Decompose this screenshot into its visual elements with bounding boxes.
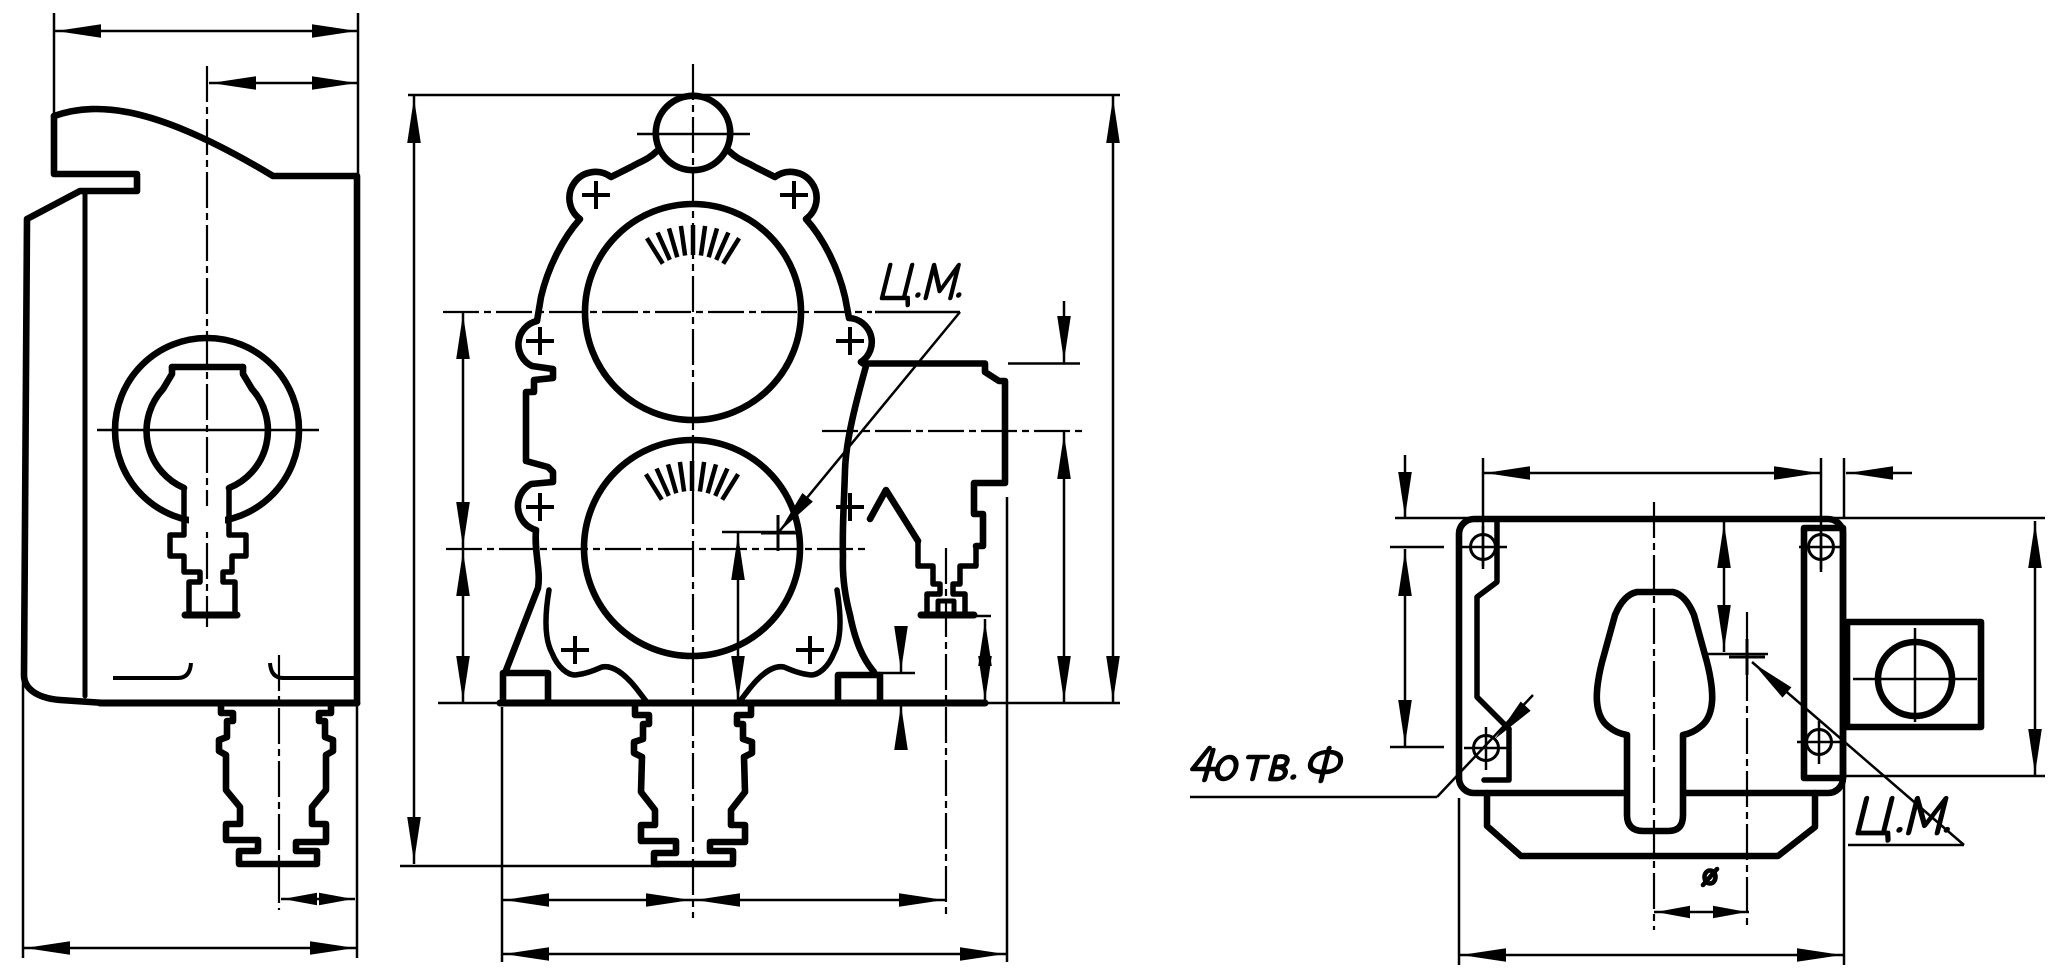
worm axis centerline right [822, 430, 1082, 432]
extension line left foot down [501, 707, 504, 962]
plate rounded rectangle [1459, 519, 1843, 793]
arrowhead top dim right [1774, 466, 1819, 480]
arrowhead bottom left height dim [407, 817, 421, 862]
cm marker cross right view [1729, 639, 1765, 675]
arrowhead right height bottom [2028, 729, 2042, 774]
lower left corner hole [1474, 736, 1499, 761]
CM right leader diagonal [1752, 662, 1964, 845]
arrowhead at flange top [1057, 316, 1071, 361]
label 4 holes underline [1190, 796, 1437, 799]
lower bore hatch fan [646, 461, 738, 500]
dovetail bottom plate middle view [654, 861, 733, 868]
extension line right edge down [356, 706, 359, 958]
right height dimension line [2034, 521, 2037, 776]
inner contour upper left [1477, 522, 1509, 729]
slot left wall [918, 541, 940, 612]
baseline thin extension right [985, 702, 1120, 705]
base ledge fillet left [113, 663, 191, 678]
left hole spacing dimension line [1404, 549, 1407, 747]
arrowhead left of second dim [211, 76, 256, 90]
arrowhead down at baseline right [1057, 656, 1071, 701]
label 4 holes text [1190, 748, 1345, 781]
left edge and hook notch of side view [24, 116, 137, 703]
arrowhead bottom right height [1106, 656, 1120, 701]
right strip pad [1804, 528, 1843, 778]
leader 4 holes arrowhead [1490, 701, 1531, 743]
arrowhead left bottom dim [25, 941, 70, 955]
bottom dovetail right profile [296, 703, 333, 861]
arrowhead left of top width dim [56, 24, 101, 38]
bell centerline [1653, 502, 1655, 930]
slot right wall below bore [223, 488, 246, 611]
side block circle [1878, 642, 1952, 716]
arrowhead bottom plate cm dim [1717, 605, 1731, 650]
extension line plate right bottom [1843, 700, 1846, 965]
arrowhead slot bottom up [978, 621, 992, 666]
arrowhead small bottom right [1713, 906, 1747, 918]
arrowhead down at lower hole line [1398, 700, 1412, 745]
leader 4 holes diagonal [1437, 695, 1533, 797]
CM right leader arrowhead [1749, 658, 1792, 698]
extension line plate left bottom [1458, 798, 1461, 965]
arrowhead bottom chain right [899, 893, 944, 907]
label CM text middle [880, 265, 969, 305]
upper bore centerline [443, 311, 872, 313]
arrowhead up at axis [1057, 434, 1071, 479]
arrowhead top right height [1106, 98, 1120, 143]
slot centerline vertical [945, 548, 947, 915]
lower bore centerline [446, 548, 865, 550]
inner wavy contour bottom right [740, 590, 840, 701]
arrowhead up at hole line [1398, 551, 1412, 596]
arrowhead down to plate top [1398, 472, 1412, 517]
arrowhead bottom overall left [504, 947, 549, 961]
arrowhead middle up bore spacing [456, 551, 470, 596]
strip bottom extension line right [1846, 775, 2045, 778]
bottom tray trapezoid [1487, 793, 1815, 856]
arrowhead left small dim [283, 893, 317, 905]
bottom overall dimension line [502, 953, 1007, 956]
overall height dimension line left [413, 96, 416, 864]
bore spacing dimension line [462, 312, 465, 703]
vertical centerline of side view [206, 66, 208, 627]
housing outline right half upper [729, 151, 872, 362]
screw cross right-upper [836, 327, 864, 355]
lower right corner hole [1807, 730, 1832, 755]
arrowhead middle down bore spacing [456, 502, 470, 547]
inner bore right profile with keystone chamfer [229, 367, 268, 488]
inner bore left profile with keystone chamfer [147, 367, 184, 488]
flange top extension line [1008, 362, 1080, 365]
lower left hole ticks [1464, 727, 1510, 770]
housing outline left half [505, 151, 657, 673]
bottom overall dimension line right view [1459, 954, 1844, 957]
label CM right view text [1856, 798, 1958, 840]
arrowhead stub pointing left [1848, 466, 1893, 480]
inner wavy contour bottom left [546, 590, 646, 701]
slot left wall below bore [170, 488, 200, 611]
arrowhead right of second dim [312, 76, 357, 90]
overall width bottom dimension line [23, 947, 357, 950]
arrowhead top bore spacing [456, 314, 470, 359]
slot depth dimension line [984, 619, 987, 703]
arrowhead top cm height [731, 535, 745, 580]
hole spacing extension left [1482, 458, 1485, 566]
small top circle [656, 96, 730, 170]
extension line left edge down [22, 680, 25, 958]
base ledge fillet right [270, 663, 356, 678]
flange outline right [861, 362, 1005, 546]
arrowhead bottom chain center left [695, 893, 740, 907]
arrowhead right bottom dim [310, 941, 355, 955]
label CM underline [875, 311, 960, 314]
dovetail centerline [278, 655, 280, 910]
arrowhead slot baseline down [978, 656, 992, 701]
slot bottom extension thin [974, 615, 991, 618]
screw cross bottom-right [796, 636, 824, 664]
baseline of middle view [500, 700, 985, 707]
cm extension tick [1705, 653, 1768, 656]
slot bottom plate [921, 612, 974, 619]
bell shaped boss [1597, 592, 1712, 831]
center of mass height dimension line [737, 533, 740, 703]
upper bore hatch fan [647, 225, 739, 264]
hole spacing dimension line top [1483, 472, 1821, 475]
arrowhead bottom at baseline [456, 656, 470, 701]
cm marker vertical centerline [1746, 612, 1748, 925]
inner bore flat key top [172, 364, 243, 371]
extension line dovetail bottom left [400, 865, 660, 868]
spike ridge [870, 490, 918, 541]
plate top extension line across [1395, 517, 2045, 520]
arrowhead right of top width dim [312, 24, 357, 38]
slot bottom bump [938, 601, 954, 612]
flange axis to baseline dimension line [1063, 432, 1066, 703]
arrowhead bottom cm height [731, 656, 745, 701]
arrowhead bottom chain left [504, 893, 549, 907]
extension line flange right down [1006, 497, 1009, 962]
inner vertical wall line [83, 193, 88, 696]
right foot [838, 675, 880, 702]
upper right corner hole [1809, 535, 1834, 560]
small circle horizontal tick [637, 133, 750, 136]
screw cross bottom-left [561, 636, 589, 664]
screw cross top-left [582, 181, 610, 209]
second dimension line (center to right edge) [209, 82, 358, 85]
extension line lower hole center left [1390, 746, 1444, 749]
upper right hole ticks [1799, 526, 1845, 569]
extension line plate right top [1843, 458, 1846, 519]
outline top arc and right edge of side view [54, 109, 357, 701]
side block circle ticks [1853, 628, 1977, 722]
arrowhead right height top [2028, 523, 2042, 568]
lower right hole ticks [1797, 721, 1843, 764]
arrowhead top plate cm dim [1717, 523, 1731, 568]
phi symbol small [1703, 869, 1717, 885]
slot bottom plate [185, 612, 237, 619]
inner contour lower left pocket [1484, 729, 1509, 780]
arrowhead top dim left [1485, 466, 1530, 480]
hole spacing extension right [1820, 458, 1823, 572]
lower bore circle [584, 440, 800, 656]
chained dimension line bottom left [502, 899, 946, 902]
arrowhead bottom right view left [1461, 948, 1506, 962]
arrowhead bottom right view right [1797, 948, 1842, 962]
baseline thin extension left [438, 702, 500, 705]
upper left hole ticks [1461, 526, 1507, 569]
side block square [1847, 622, 1981, 727]
bottom center small dimension line [1654, 911, 1749, 914]
flange top small dimension line [1063, 301, 1066, 363]
upper left corner hole [1471, 535, 1496, 560]
foot top extension line [872, 672, 915, 675]
outer circle (boss) [115, 338, 299, 522]
edge offset stub dimension [1846, 472, 1912, 475]
dimension extension line right top [357, 13, 360, 174]
left foot [503, 673, 548, 702]
screw cross left-lower [526, 493, 554, 521]
arrowhead bottom overall right [960, 947, 1005, 961]
arrowhead foot baseline [894, 705, 908, 750]
extension line at center of mass height [722, 531, 795, 534]
arrowhead top left height dim [407, 98, 421, 143]
center of mass cross marker [761, 515, 796, 551]
arrowhead small bottom left [1656, 906, 1690, 918]
housing outline right edge below flange [843, 366, 874, 672]
white mask for throat opening in outer circle [189, 506, 225, 532]
screw cross right-lower [836, 493, 864, 521]
arrowhead right small dim [319, 893, 353, 905]
arrowhead bottom chain center right [646, 893, 691, 907]
bottom dovetail bottom plate [239, 861, 317, 868]
extension line hole center left [1390, 546, 1444, 549]
slot right wall [953, 546, 976, 612]
screw cross top-right [780, 181, 808, 209]
overall height dimension right [1112, 96, 1115, 703]
plate top to cm dimension line [1723, 521, 1726, 652]
top extension line tangent to top circle [408, 94, 1120, 97]
baseline bottom edge of side view [100, 700, 357, 707]
bottom dovetail left profile [219, 703, 258, 862]
horizontal centerline of circle [97, 429, 319, 431]
CM leader arrowhead [774, 493, 813, 536]
arrowhead foot top [894, 626, 908, 671]
vertical centerline middle view [692, 64, 694, 918]
CM leader line [778, 312, 960, 533]
left small dim upper line [1404, 455, 1407, 517]
upper bore circle [585, 204, 801, 420]
dimension extension line left top [53, 13, 56, 114]
screw cross left-upper [526, 327, 554, 355]
dovetail left profile middle view [634, 703, 676, 862]
small dovetail offset dimension line [281, 898, 355, 901]
foot height dimension small [900, 641, 903, 734]
overall width dimension line top [54, 30, 358, 33]
label CM right underline [1848, 844, 1964, 847]
dovetail right profile middle view [710, 703, 752, 861]
